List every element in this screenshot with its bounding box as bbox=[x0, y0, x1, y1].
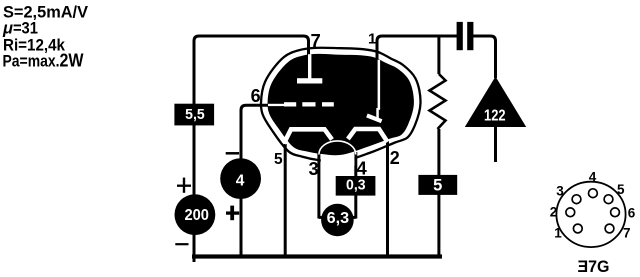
svg-text:Pa=max.2W: Pa=max.2W bbox=[3, 49, 84, 70]
svg-text:7: 7 bbox=[623, 226, 631, 241]
svg-text:3: 3 bbox=[556, 183, 564, 198]
svg-text:200: 200 bbox=[184, 207, 209, 224]
svg-text:2: 2 bbox=[550, 205, 558, 220]
svg-text:4: 4 bbox=[236, 172, 245, 189]
svg-text:μ=31: μ=31 bbox=[2, 19, 38, 37]
svg-text:6,3: 6,3 bbox=[327, 210, 350, 227]
svg-text:6: 6 bbox=[628, 205, 636, 220]
svg-text:0,3: 0,3 bbox=[346, 176, 366, 193]
svg-text:5: 5 bbox=[433, 177, 442, 195]
svg-text:122: 122 bbox=[484, 107, 506, 124]
svg-text:4: 4 bbox=[589, 169, 597, 184]
svg-text:5,5: 5,5 bbox=[185, 106, 205, 123]
svg-text:3: 3 bbox=[309, 158, 319, 179]
svg-text:5: 5 bbox=[274, 151, 283, 168]
svg-text:5: 5 bbox=[617, 182, 625, 197]
svg-text:2: 2 bbox=[390, 148, 400, 168]
svg-text:1: 1 bbox=[554, 226, 562, 241]
svg-text:7: 7 bbox=[311, 30, 321, 51]
svg-text:1: 1 bbox=[368, 31, 376, 48]
svg-text:Ǝ7G: Ǝ7G bbox=[578, 258, 610, 276]
svg-text:6: 6 bbox=[251, 86, 261, 106]
svg-text:4: 4 bbox=[357, 158, 368, 179]
